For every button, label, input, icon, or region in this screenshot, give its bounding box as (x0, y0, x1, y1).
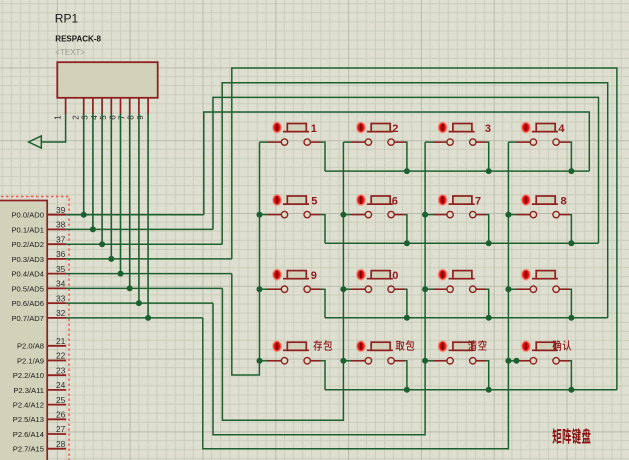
wire P0.5 to keypad column 2 bottom (222, 288, 343, 420)
wire net P0.3 horizontal (66, 258, 232, 260)
svg-text:P2.1/A9: P2.1/A9 (17, 356, 44, 365)
resistor pack RP1 body (57, 62, 157, 98)
svg-text:P0.5/AD5: P0.5/AD5 (11, 284, 44, 293)
wire button(r4,c3) left nub to column (425, 360, 433, 362)
push-button "6" (row 2, col 2) (351, 194, 404, 218)
junction column 4 / row 3 (505, 286, 511, 292)
wire button(r1,c4) left nub to column (508, 141, 516, 143)
svg-text:P0.2/AD2: P0.2/AD2 (11, 240, 44, 249)
push-button "2" (row 1, col 2) (351, 122, 404, 146)
wire button(r3,c1) right drop to row return (321, 289, 325, 318)
wire P0.3 riser / top bus to keypad row 4 return (232, 68, 617, 390)
wire button(r3,c2) right drop to row return (405, 289, 407, 318)
svg-text:39: 39 (56, 205, 66, 215)
junction row 3 return / button col 4 (568, 315, 574, 321)
svg-text:3: 3 (485, 123, 491, 135)
wire keypad row 4 return (325, 389, 617, 391)
svg-text:24: 24 (56, 380, 66, 390)
junction RP1.8/P0.6 (136, 300, 142, 306)
svg-text:P2.2/A10: P2.2/A10 (13, 371, 44, 380)
wire net P0.5 horizontal (66, 287, 222, 289)
svg-text:RESPACK-8: RESPACK-8 (55, 35, 101, 44)
U1 pin 27 (P2.6/A14) (13, 424, 66, 439)
wire button(r2,c1) right drop to row return (321, 215, 325, 244)
svg-text:25: 25 (56, 395, 66, 405)
push-button "8" (row 2, col 4) (516, 194, 569, 218)
wire button(r4,c4) right drop to row return (570, 361, 572, 390)
wire keypad row 2 return (325, 242, 599, 244)
schematic caption text: 矩阵键盘 (matrix keypad) (553, 428, 562, 444)
wire button(r1,c2) left nub to column (343, 141, 351, 143)
wire keypad column 2 vertical (342, 142, 344, 361)
junction RP1.9/P0.7 (145, 315, 151, 321)
wire button(r1,c4) right drop to row return (570, 142, 572, 171)
junction row 1 return / button col 4 (568, 168, 574, 174)
wire net P0.7 horizontal (66, 317, 203, 319)
wire RP1 pin 2 to node P0.0 (83, 114, 85, 215)
svg-text:8: 8 (561, 196, 567, 208)
wire button(r1,c3) right drop to row return (486, 142, 489, 171)
RP1 pin 7 stub (129, 98, 131, 114)
svg-text:9: 9 (136, 115, 145, 120)
junction row 1 return / button col 2 (404, 168, 410, 174)
push-button "QueRen" (row 4, col 4) (516, 340, 569, 364)
U1 pin 33 (P0.6/AD6) (11, 293, 66, 308)
svg-text:28: 28 (56, 439, 66, 449)
svg-text:7: 7 (475, 196, 481, 208)
svg-text:P2.5/A13: P2.5/A13 (13, 415, 44, 424)
wire button(r1,c1) left nub to column (260, 141, 268, 143)
junction column 3 / row 4 (422, 358, 428, 364)
U1 pin 28 (P2.7/A15) (13, 439, 66, 454)
wire button(r4,c4) left nub to column (508, 360, 516, 362)
svg-text:P0.4/AD4: P0.4/AD4 (11, 270, 44, 279)
svg-text:32: 32 (56, 308, 66, 318)
svg-text:3: 3 (81, 115, 90, 120)
button label 确认 (553, 340, 562, 351)
push-button "CunBao" (row 4, col 1) (268, 340, 321, 364)
wire button(r1,c3) left nub to column (425, 141, 433, 143)
push-button "1" (row 1, col 1) (268, 122, 321, 146)
RP1 pin 8 stub (138, 98, 140, 114)
junction RP1.2/P0.0 (81, 212, 87, 218)
svg-text:<TEXT>: <TEXT> (55, 48, 85, 57)
junction column 1 / row 3 (257, 286, 263, 292)
wire button(r2,c4) left nub to column (508, 214, 516, 216)
svg-text:7: 7 (118, 115, 127, 120)
push-button "4" (row 1, col 4) (516, 122, 569, 146)
junction row 4 return / button col 3 (486, 387, 492, 393)
junction row 2 return / button col 4 (568, 240, 574, 246)
svg-text:4: 4 (558, 123, 565, 135)
svg-text:P0.3/AD3: P0.3/AD3 (11, 255, 44, 264)
push-button "QuBao" (row 4, col 2) (351, 340, 404, 364)
RP1 pin 1 stub (65, 98, 67, 114)
wire button(r2,c3) left nub to column (425, 214, 433, 216)
push-button "(row3-c4)" (row 3, col 4) (516, 269, 569, 293)
wire button(r1,c1) right drop to row return (321, 142, 325, 171)
svg-text:9: 9 (311, 270, 317, 282)
wire button(r4,c2) left nub to column (343, 360, 351, 362)
svg-text:2: 2 (72, 115, 81, 120)
U1 pin 34 (P0.5/AD5) (11, 279, 66, 294)
wire keypad column 3 vertical (424, 142, 426, 361)
svg-text:P0.1/AD1: P0.1/AD1 (11, 225, 44, 234)
U1 pin 39 (P0.0/AD0) (11, 205, 66, 220)
junction column 2 / row 3 (340, 286, 346, 292)
svg-text:P2.7/A15: P2.7/A15 (13, 445, 44, 454)
push-button "9" (row 3, col 1) (268, 269, 321, 293)
wire button(r2,c1) left nub to column (260, 214, 268, 216)
wire button(r3,c3) right drop to row return (486, 289, 489, 318)
U1 pin 32 (P0.7/AD7) (11, 308, 66, 323)
svg-text:22: 22 (56, 351, 66, 361)
wire P0.1 riser / top bus to keypad row 2 return (213, 97, 599, 243)
wire RP1 pin 7 to node P0.5 (129, 114, 131, 289)
U1 pin 23 (P2.2/A10) (13, 365, 66, 380)
wire button(r4,c3) right drop to row return (486, 361, 489, 390)
junction row 3 return / button col 3 (486, 315, 492, 321)
wire P0.0 riser / top bus to keypad row 1 return (204, 112, 590, 215)
junction column 4 / row 2 (505, 212, 511, 218)
wire button(r2,c3) right drop to row return (486, 215, 489, 244)
svg-text:37: 37 (56, 234, 66, 244)
push-button "7" (row 2, col 3) (433, 194, 486, 218)
svg-text:26: 26 (56, 410, 66, 420)
svg-text:23: 23 (56, 365, 66, 375)
wire net P0.4 horizontal (66, 273, 232, 275)
wire RP1 pin 9 to node P0.7 (147, 114, 149, 318)
U1 pin 22 (P2.1/A9) (17, 351, 66, 366)
wire button(r3,c1) left nub to column (260, 288, 268, 290)
wire button(r2,c4) right drop to row return (570, 215, 572, 244)
svg-text:P0.0/AD0: P0.0/AD0 (11, 211, 44, 220)
microcontroller U1 body (cropped at left edge) (0, 201, 47, 460)
wire keypad column 1 vertical (259, 142, 261, 361)
wire net P0.1 horizontal (66, 228, 213, 230)
button label 取包 (396, 341, 405, 351)
RP1 pin 4 stub (101, 98, 103, 114)
svg-text:8: 8 (127, 115, 136, 120)
junction row 2 return / button col 3 (486, 240, 492, 246)
svg-text:P2.3/A11: P2.3/A11 (13, 386, 44, 395)
svg-text:5: 5 (99, 115, 108, 120)
wire net P0.6 horizontal (66, 302, 213, 304)
wire button(r2,c2) left nub to column (343, 214, 351, 216)
wire keypad row 3 return (325, 317, 608, 319)
svg-text:P2.4/A12: P2.4/A12 (13, 401, 44, 410)
RP1 pin 3 stub (92, 98, 94, 114)
svg-text:5: 5 (311, 196, 317, 208)
wire button(r4,c1) right drop to row return (321, 361, 325, 390)
svg-text:1: 1 (53, 115, 62, 120)
extra junction at row4/col4 left nub (514, 358, 520, 364)
junction RP1.7/P0.5 (127, 285, 133, 291)
svg-text:21: 21 (56, 336, 66, 346)
svg-text:34: 34 (56, 279, 66, 289)
svg-text:RP1: RP1 (55, 12, 79, 26)
svg-text:36: 36 (56, 249, 66, 259)
junction RP1.3/P0.1 (90, 226, 96, 232)
U1 pin 35 (P0.4/AD4) (11, 264, 66, 279)
svg-text:P0.7/AD7: P0.7/AD7 (11, 314, 44, 323)
svg-text:1: 1 (311, 123, 317, 135)
wire button(r2,c2) right drop to row return (405, 215, 407, 244)
RP1 pin 6 stub (120, 98, 122, 114)
svg-text:38: 38 (56, 220, 66, 230)
wire button(r3,c2) left nub to column (343, 288, 351, 290)
wire net P0.2 horizontal (66, 243, 222, 245)
wire RP1 pin 6 to node P0.4 (120, 114, 122, 274)
selection box (red dashed) around U1 (1, 197, 69, 460)
U1 pin 24 (P2.3/A11) (13, 380, 66, 395)
RP1 pin 9 stub (147, 98, 149, 114)
junction RP1.6/P0.4 (118, 271, 124, 277)
wire button(r3,c3) left nub to column (425, 288, 433, 290)
junction column 4 / row 4 (505, 358, 511, 364)
wire net P0.0 horizontal (66, 214, 204, 216)
U1 pin 21 (P2.0/A8) (17, 336, 66, 351)
wire button(r4,c2) right drop to row return (405, 361, 407, 390)
svg-text:6: 6 (108, 115, 117, 120)
junction row 1 return / button col 3 (486, 168, 492, 174)
wire RP1 pin 4 to node P0.2 (101, 114, 103, 245)
svg-text:33: 33 (56, 293, 66, 303)
RP1 pin 5 stub (110, 98, 112, 114)
U1 pin 36 (P0.3/AD3) (11, 249, 66, 264)
svg-text:27: 27 (56, 424, 66, 434)
svg-text:6: 6 (392, 196, 398, 208)
wire keypad row 1 return (325, 170, 589, 172)
junction row 4 return / button col 4 (568, 387, 574, 393)
U1 pin 25 (P2.4/A12) (13, 395, 66, 410)
svg-text:4: 4 (90, 115, 99, 120)
svg-text:P2.0/A8: P2.0/A8 (17, 342, 44, 351)
junction column 1 / row 4 (257, 358, 263, 364)
button label 清空 (468, 340, 477, 351)
junction RP1.5/P0.3 (108, 256, 114, 262)
svg-text:P2.6/A14: P2.6/A14 (13, 430, 44, 439)
junction row 2 return / button col 2 (404, 240, 410, 246)
junction RP1.4/P0.2 (99, 241, 105, 247)
junction column 3 / row 3 (422, 286, 428, 292)
junction column 2 / row 4 (340, 358, 346, 364)
wire P0.4 to keypad column 1 bottom (232, 274, 260, 375)
wire P0.2 riser / top bus to keypad row 3 return (222, 83, 608, 318)
wire button(r1,c2) right drop to row return (405, 142, 407, 171)
junction row 3 return / button col 2 (404, 315, 410, 321)
wire button(r4,c1) left nub to column (260, 360, 268, 362)
wire RP1 pin 3 to node P0.1 (92, 114, 94, 230)
svg-text:P0.6/AD6: P0.6/AD6 (11, 299, 44, 308)
wire P0.6 to keypad column 3 bottom (213, 303, 425, 435)
push-button "3" (row 1, col 3) (433, 122, 486, 146)
U1 pin 37 (P0.2/AD2) (11, 234, 66, 249)
svg-text:35: 35 (56, 264, 66, 274)
junction column 1 / row 2 (257, 212, 263, 218)
push-button "QingKong" (row 4, col 3) (433, 340, 486, 364)
wire button(r3,c4) left nub to column (508, 288, 516, 290)
wire button(r3,c4) right drop to row return (570, 289, 572, 318)
input terminal arrow (net connector) (29, 136, 42, 148)
svg-text:0: 0 (392, 270, 398, 282)
wire RP1 pin 5 to node P0.3 (110, 114, 112, 259)
push-button "0" (row 3, col 2) (351, 269, 404, 293)
U1 pin 38 (P0.1/AD1) (11, 220, 66, 235)
push-button "5" (row 2, col 1) (268, 194, 321, 218)
button label 存包 (313, 340, 322, 351)
wire keypad column 4 vertical (507, 142, 509, 361)
U1 pin 26 (P2.5/A13) (13, 410, 66, 425)
wire RP1 pin 1 to input terminal (41, 114, 65, 143)
junction column 3 / row 2 (422, 212, 428, 218)
wire RP1 pin 8 to node P0.6 (138, 114, 140, 304)
junction row 4 return / button col 2 (404, 387, 410, 393)
junction column 2 / row 2 (340, 212, 346, 218)
wire P0.7 to keypad column 4 bottom (203, 318, 509, 449)
svg-text:2: 2 (392, 123, 398, 135)
RP1 pin 2 stub (83, 98, 85, 114)
push-button "(row3-c3)" (row 3, col 3) (433, 269, 486, 293)
